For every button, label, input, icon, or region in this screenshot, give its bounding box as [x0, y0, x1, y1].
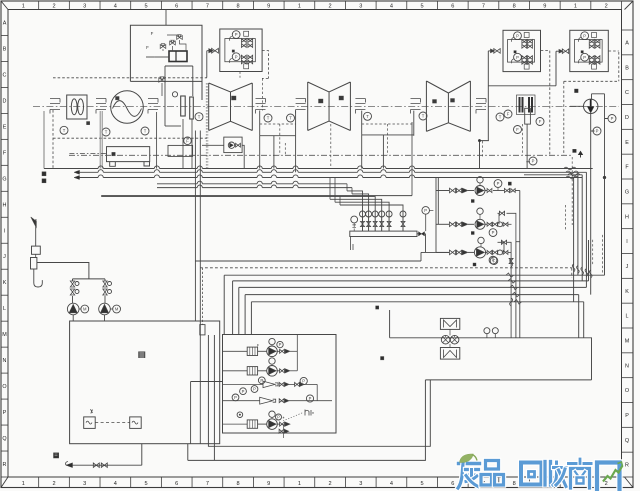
rowE circles: [269, 411, 275, 417]
svg-text:P: P: [424, 208, 427, 213]
svg-text:B: B: [3, 46, 7, 52]
svg-text:P: P: [625, 413, 629, 419]
row1 B circle: [477, 177, 483, 183]
dashed verticals right: [566, 157, 603, 275]
T2 label mark: [319, 99, 324, 103]
gland drain riser: [526, 124, 528, 168]
inner mark (box A): [232, 50, 234, 52]
svg-text:P: P: [235, 32, 238, 37]
instrument circle T: [419, 112, 427, 120]
pressure gauge P bottom (box D): [581, 53, 589, 61]
gauge tail top (box A): [230, 36, 232, 41]
svg-text:G: G: [625, 189, 629, 195]
mark mid right: [431, 378, 433, 380]
svg-text:P: P: [532, 159, 535, 164]
svg-text:2: 2: [605, 481, 608, 487]
svg-text:1: 1: [574, 4, 577, 10]
valve pair lower (box D): [589, 56, 594, 60]
svg-text:9: 9: [267, 481, 270, 487]
ji vertical line: [35, 226, 37, 246]
watermark leaf: [460, 454, 474, 463]
svg-text:N: N: [3, 358, 7, 364]
box C inlet line: [488, 50, 493, 52]
watermark char hui: [521, 463, 542, 485]
cluster row E: [247, 420, 257, 428]
return line 5: [251, 301, 583, 303]
svg-text:Q: Q: [2, 436, 6, 442]
crossed valve circles: [441, 335, 450, 344]
svg-text:L: L: [3, 306, 6, 312]
manifold outlet: [417, 233, 426, 235]
row F valve pair: [279, 429, 284, 433]
svg-text:P: P: [516, 55, 519, 60]
row1 P gauge: [494, 180, 502, 188]
corner diagonal bottom-right: [625, 477, 634, 488]
thermometer pair: [484, 328, 490, 334]
gauge tail bottom (box D): [578, 59, 580, 64]
box A inlet valve: [212, 48, 219, 53]
rowB line right: [290, 370, 297, 372]
gauge tail top (box C): [511, 37, 513, 42]
EH control block thick rect: [169, 51, 187, 62]
tub T2-T3 risers: [362, 135, 414, 169]
tub T2-T3 drain: [382, 135, 384, 169]
row2 P gauge: [489, 229, 497, 237]
bearing pedestal gen-left: [96, 99, 106, 114]
feed risers to pump rows: [436, 178, 438, 253]
valve cluster box (box A): [220, 29, 262, 72]
cluster row C eductor: [258, 377, 265, 384]
gauge tail bottom (box C): [511, 59, 513, 64]
svg-text:P: P: [302, 379, 305, 384]
gauge tail top (box D): [578, 37, 580, 42]
dashed from box A bottom: [239, 72, 241, 78]
return line 1 break: [507, 273, 508, 277]
tub T1-T2 risers: [260, 136, 296, 173]
svg-text:P: P: [516, 33, 519, 38]
rowC P gauges: [240, 388, 247, 395]
T2 label mark b: [339, 96, 344, 100]
three-way valve on MSV: [159, 77, 165, 82]
svg-text:P: P: [309, 396, 312, 401]
ji flag: [31, 217, 37, 228]
svg-text:K: K: [3, 280, 7, 286]
inner header rect (box D): [574, 40, 602, 63]
svg-text:O: O: [625, 388, 629, 394]
vent square top (box A): [244, 31, 249, 36]
wrap vertical mid: [213, 335, 215, 460]
row3 G circle: [478, 237, 484, 243]
pressure gauge P bottom (box A): [232, 53, 240, 61]
return line 4: [245, 294, 579, 296]
bus line 2 arrow: [74, 170, 80, 174]
gland heater small rect: [525, 108, 531, 124]
svg-text:I: I: [626, 239, 628, 245]
instrument square 2: [130, 417, 142, 429]
valve pair lower (box C): [522, 56, 527, 60]
dashed return top: [200, 267, 572, 269]
svg-text:2: 2: [52, 4, 55, 10]
cluster marks: [471, 200, 474, 203]
svg-text:4: 4: [390, 4, 393, 10]
bus right verticals: [574, 113, 591, 302]
svg-text:I: I: [4, 228, 6, 234]
rowD P gauge: [232, 394, 239, 401]
svg-text:3: 3: [83, 481, 86, 487]
svg-text:F: F: [507, 112, 510, 117]
pressure gauge P bottom (box C): [514, 53, 522, 61]
svg-text:Q: Q: [625, 438, 629, 444]
svg-text:P: P: [492, 230, 495, 235]
instrument square 1: [84, 417, 96, 429]
cluster P right 2: [306, 395, 313, 402]
svg-text:P: P: [234, 395, 237, 400]
feed pump valves 2: [103, 281, 107, 287]
tub T1-T2 dashed: [260, 123, 296, 125]
manifold drop: [351, 237, 353, 251]
cluster inner risers: [316, 384, 318, 400]
pump discharge wrap: [579, 178, 605, 338]
drain mark: [54, 453, 59, 458]
bus line 4: [157, 183, 197, 185]
instrument circle P: [593, 127, 601, 135]
svg-text:K: K: [625, 289, 629, 295]
svg-text:M: M: [2, 332, 7, 338]
drain step: [66, 444, 142, 466]
ejector stems: [446, 329, 455, 347]
ji run line: [37, 263, 105, 282]
instrument circle T: [264, 114, 272, 122]
svg-text:P: P: [279, 342, 282, 347]
turbine T2 IP: [308, 82, 351, 131]
valve pair upper2 (box D): [589, 44, 594, 48]
bearing pedestal gen-right: [148, 99, 158, 114]
T3 label mark b: [451, 99, 455, 103]
dashed box C bottom path: [541, 51, 619, 156]
dashed drop to rect: [201, 268, 203, 325]
svg-text:T: T: [366, 114, 369, 119]
svg-text:1: 1: [22, 481, 25, 487]
bus line 1: [44, 168, 98, 170]
bottom right outline: [390, 310, 592, 380]
main stop valve block: [181, 96, 186, 116]
rowB feed: [223, 370, 248, 372]
return breaks zigzag: [506, 273, 522, 304]
return line 3 break: [510, 285, 511, 289]
ji square: [32, 246, 41, 254]
instrument circle T: [195, 113, 203, 121]
generator sine wave: [113, 101, 142, 117]
arrow mark right: [579, 152, 583, 158]
black mark right2: [573, 149, 577, 152]
svg-text:F: F: [186, 138, 189, 143]
valve cluster box (box C): [503, 30, 541, 71]
svg-text:F: F: [151, 31, 154, 36]
manifold feed fan: [101, 191, 403, 231]
svg-text:M: M: [625, 338, 630, 344]
oil unit box: [70, 321, 220, 444]
instrument circle P: [608, 115, 616, 123]
svg-text:6: 6: [175, 4, 178, 10]
bus line 3 arrow: [74, 176, 80, 180]
svg-text:8: 8: [237, 4, 240, 10]
svg-text:P: P: [277, 415, 280, 420]
wrap outline 1: [208, 335, 430, 446]
boundary dashed top: [53, 77, 207, 79]
solenoid valve 1: [160, 44, 166, 49]
svg-text:7: 7: [206, 481, 209, 487]
MSV F instrument: [184, 137, 192, 145]
right vertical breaks: [572, 264, 592, 278]
row3 suction line: [195, 252, 449, 261]
instrument circle P: [529, 157, 537, 165]
thin rect on drop: [200, 325, 205, 335]
valve pair lower2 (box C): [522, 60, 527, 64]
cluster row B: [247, 367, 257, 375]
instrument circle F: [504, 110, 512, 118]
svg-text:4: 4: [390, 481, 393, 487]
watermark char pin: [481, 461, 504, 486]
lube cluster box: [223, 335, 337, 434]
svg-text:P: P: [235, 54, 238, 59]
svg-text:O: O: [2, 384, 6, 390]
svg-text:*: *: [283, 417, 285, 423]
pump row 3: [450, 250, 456, 255]
pilot line: [163, 35, 186, 51]
svg-text:H: H: [3, 202, 7, 208]
T1 label mark: [232, 96, 237, 100]
instrument circle F: [514, 126, 522, 134]
svg-text:7: 7: [482, 4, 485, 10]
coupling ellipse 1: [71, 99, 77, 115]
MSV enclosure: [165, 66, 193, 126]
turbine T3 LP: [426, 81, 470, 131]
svg-text:3: 3: [359, 481, 362, 487]
svg-text:4: 4: [114, 4, 117, 10]
condensate pump channel: [570, 94, 608, 178]
coupling label mark: [87, 122, 90, 125]
bearing tub T2-T3: [362, 111, 414, 135]
return line 2: [233, 280, 589, 282]
feed pump 2 motor: [113, 305, 121, 313]
svg-text:7: 7: [206, 4, 209, 10]
vertical feed from top frame: [165, 10, 167, 26]
MSV drain box: [168, 145, 193, 156]
bearing tub T1-T2: [260, 111, 296, 136]
generator label mark: [116, 97, 120, 100]
bearing pedestal T2 right: [355, 99, 365, 114]
top ruler strip with column numbers: [22, 1, 622, 10]
drain valves: [93, 463, 99, 468]
svg-text:F: F: [539, 119, 542, 124]
bottom ruler strip with column numbers: [22, 477, 622, 488]
drain manifold: [350, 231, 417, 236]
svg-text:A: A: [625, 40, 629, 46]
rowB circles: [269, 358, 275, 364]
svg-text:2: 2: [329, 4, 332, 10]
valve pair upper (box C): [522, 40, 527, 44]
governor instrument G: [172, 92, 177, 97]
T2 spare: [300, 135, 302, 137]
svg-text:6: 6: [175, 481, 178, 487]
bus line 7 right: [524, 174, 582, 176]
svg-text:P: P: [611, 116, 614, 121]
svg-text:T: T: [144, 129, 147, 134]
svg-text:R: R: [3, 462, 7, 468]
vent square top (box C): [524, 33, 529, 38]
svg-text:1: 1: [298, 4, 301, 10]
instrument circle F: [536, 118, 544, 126]
svg-text:P: P: [497, 181, 500, 186]
svg-text:D: D: [625, 115, 629, 121]
left riser to bus: [43, 111, 45, 169]
valve pair upper (box D): [589, 40, 594, 44]
gray oil line pair: [100, 111, 102, 169]
svg-text:C: C: [625, 90, 629, 96]
svg-text:1: 1: [22, 4, 25, 10]
valve cluster box (box D): [570, 30, 609, 71]
svg-text:N: N: [625, 363, 629, 369]
pressure gauge P top (box C): [514, 32, 522, 40]
bearing pedestal left end: [50, 99, 60, 114]
svg-text:P: P: [583, 33, 586, 38]
T1 inlet hatched strip: [205, 83, 207, 169]
vent square top (box D): [592, 33, 597, 38]
bus line end waves: [564, 167, 580, 179]
svg-text:9: 9: [543, 4, 546, 10]
row1 mark: [508, 182, 511, 185]
rowE dotted lead: [283, 413, 303, 422]
svg-text:B: B: [625, 65, 629, 71]
svg-text:P: P: [253, 387, 256, 392]
ji hook: [34, 269, 43, 287]
suction F circle: [490, 257, 498, 265]
svg-text:M: M: [115, 307, 119, 312]
svg-text:*: *: [312, 412, 314, 418]
instrument circle T: [364, 112, 372, 120]
svg-text:E: E: [625, 140, 629, 146]
turbine T1 HP: [209, 83, 253, 131]
svg-text:A: A: [3, 20, 7, 26]
watermark chart: [603, 466, 623, 482]
return line 5 break: [513, 300, 514, 304]
dashed between squares: [95, 422, 130, 424]
wrap outline 2: [188, 380, 426, 461]
valve pair lower (box A): [241, 55, 246, 59]
return line 2 break: [509, 279, 510, 283]
bus start mark 1: [42, 172, 46, 176]
pressure gauge P top (box A): [232, 31, 240, 39]
return line 1: [224, 274, 604, 276]
svg-text:1: 1: [298, 481, 301, 487]
svg-text:E: E: [3, 124, 7, 130]
generator circle: [111, 91, 144, 124]
vent square bottom (box A): [244, 64, 249, 69]
valve pair upper (box A): [241, 39, 246, 43]
box A outlet dashed: [262, 51, 268, 79]
nest left drops: [224, 275, 251, 334]
row drop lines: [516, 191, 520, 338]
line y158.8 stub: [526, 161, 530, 163]
svg-text:5: 5: [421, 4, 424, 10]
svg-text:P: P: [596, 129, 599, 134]
svg-text:2: 2: [52, 481, 55, 487]
svg-text:4: 4: [114, 481, 117, 487]
tick above square: [91, 409, 93, 413]
svg-text:J: J: [3, 254, 6, 260]
T1 drain risers: [195, 131, 200, 444]
right ruler strip with row letters: [622, 10, 634, 478]
row3 valves right: [493, 250, 498, 254]
EH oil enclosure box: [130, 25, 202, 100]
solenoid valve 3: [177, 35, 183, 40]
return line 3: [239, 286, 587, 288]
svg-text:3: 3: [359, 4, 362, 10]
svg-text:8: 8: [513, 4, 516, 10]
wavy break on drop: [510, 298, 513, 306]
gauge tail bottom (box A): [230, 58, 232, 63]
svg-text:M: M: [83, 307, 87, 312]
feed pump 1: [67, 303, 79, 315]
shaft centerline: [33, 106, 619, 108]
feed pump 1 motor: [81, 305, 89, 313]
oil tank: [107, 147, 150, 167]
bus line 6: [101, 195, 412, 197]
svg-text:6: 6: [451, 481, 454, 487]
rowA line right: [290, 350, 297, 352]
mark near wrap: [381, 357, 384, 360]
svg-text:G: G: [2, 176, 6, 182]
svg-text:C: C: [3, 72, 7, 78]
svg-text:5: 5: [144, 481, 147, 487]
svg-text:2: 2: [329, 481, 332, 487]
break on row3 drop: [510, 259, 513, 267]
bearing pedestal T1 right: [256, 99, 266, 114]
box C inlet valve: [494, 49, 500, 54]
row2 branch: [498, 213, 520, 241]
corner diagonal top-left: [1, 1, 8, 10]
bearing pedestal T3 left: [411, 99, 421, 114]
junction dot on bus: [603, 176, 606, 179]
bus start mark 2: [42, 179, 46, 183]
bus line 3: [77, 177, 98, 179]
pump row 1: [450, 188, 456, 193]
instrument circle T: [287, 114, 295, 122]
rowE circled dot: [237, 412, 243, 418]
inner header rect (box C): [508, 40, 535, 63]
cluster row A: [247, 347, 257, 355]
corner diagonal bottom-left: [1, 477, 8, 488]
svg-text:T: T: [198, 114, 201, 119]
row1 valves right: [504, 188, 509, 192]
oil unit label mark: [139, 352, 146, 358]
box D inlet valve: [562, 49, 568, 54]
svg-text:H: H: [625, 214, 629, 220]
T3 drain riser: [411, 122, 413, 196]
manifold P gauge: [422, 207, 430, 215]
pump drops: [73, 296, 106, 321]
svg-text:2: 2: [605, 4, 608, 10]
oil tank dash lead: [69, 153, 106, 155]
valve pair upper2 (box C): [522, 44, 527, 48]
instrument circle T: [102, 128, 110, 136]
svg-text:L: L: [626, 314, 629, 320]
inner mark (box C): [514, 51, 516, 53]
return line 4 break: [512, 293, 513, 297]
ji rect2: [31, 258, 37, 270]
pump in box: [228, 142, 234, 148]
watermark char shang: [569, 459, 592, 488]
